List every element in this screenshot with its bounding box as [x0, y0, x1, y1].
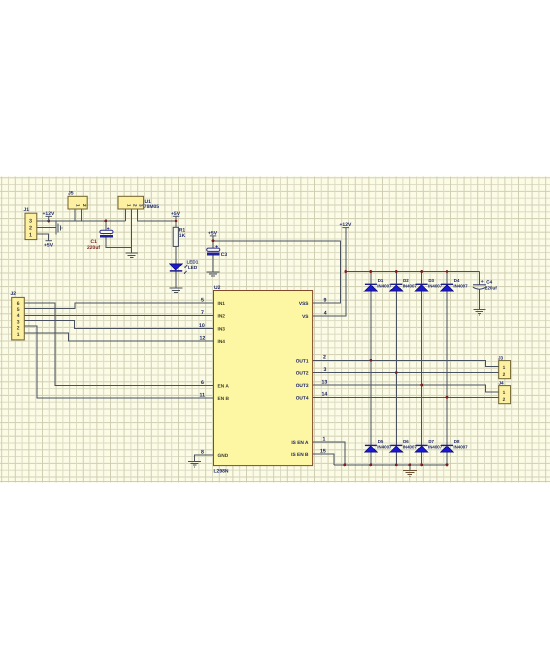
svg-text:D3: D3 [428, 278, 434, 283]
connector J3 [498, 355, 511, 378]
wire: D7 anode to bottom bus [421, 452, 423, 465]
svg-text:8: 8 [201, 449, 204, 455]
svg-text:C3: C3 [221, 252, 228, 258]
svg-text:2: 2 [503, 372, 506, 378]
wire: 78M05 input stub [125, 209, 127, 221]
wire: LED1 cathode to ground [175, 272, 177, 289]
diode D5 IN4007 [365, 439, 392, 452]
svg-text:+5V: +5V [171, 211, 181, 217]
wire: bottom flyback bus [334, 464, 447, 466]
node: bus-D8 [446, 464, 449, 467]
svg-text:15: 15 [320, 448, 326, 454]
svg-text:IN2: IN2 [218, 314, 226, 320]
svg-text:D7: D7 [428, 439, 434, 444]
svg-text:13: 13 [322, 379, 328, 385]
ground (under C3) [207, 272, 220, 276]
wire: +5V port stem to R1 node [175, 216, 177, 221]
svg-text:220uf: 220uf [485, 286, 497, 291]
wire: J2 pin5 jog up to IN1 row [24, 303, 204, 309]
wire: J2 pin6 down to EN A row [24, 303, 204, 386]
ground (bottom bus) [403, 470, 417, 476]
svg-text:OUT2: OUT2 [296, 371, 309, 377]
diode D8 IN4007 [441, 439, 468, 452]
svg-text:L298N: L298N [214, 468, 229, 474]
svg-text:1: 1 [17, 332, 20, 338]
wire: D1 column [370, 272, 372, 446]
svg-text:LED: LED [188, 265, 198, 270]
svg-text:EN B: EN B [218, 396, 230, 402]
ground (under C4) [474, 309, 486, 315]
power port +5V (above R1) [171, 211, 181, 217]
svg-text:3: 3 [139, 204, 144, 207]
wire: J2 pin4 straight to IN2 row [24, 315, 204, 317]
wire: C3 bottom lead to ground [212, 255, 214, 271]
svg-text:VSS: VSS [299, 301, 309, 307]
node: ISENA-bus [344, 464, 347, 467]
svg-text:2: 2 [132, 204, 137, 207]
svg-text:14: 14 [322, 392, 328, 398]
svg-text:U2: U2 [214, 285, 221, 291]
svg-text:6: 6 [17, 301, 20, 307]
svg-text:VS: VS [302, 314, 309, 320]
svg-text:4: 4 [324, 311, 327, 317]
svg-text:IS EN A: IS EN A [291, 440, 309, 446]
svg-text:10: 10 [199, 323, 205, 329]
svg-text:1: 1 [503, 365, 506, 371]
svg-text:D4: D4 [454, 278, 460, 283]
svg-text:2: 2 [82, 204, 87, 207]
schematic grid background band [0, 177, 550, 483]
node: OUT3-D3 [420, 384, 423, 387]
wire: D2 column [395, 272, 397, 446]
wire: C3 top lead [212, 241, 214, 248]
wire: D5 anode to bottom bus [370, 452, 372, 465]
wire: J5 pin2 stub down to rail [80, 209, 82, 221]
resistor R1 1K [173, 227, 185, 246]
node: bus ground tap [409, 464, 412, 467]
svg-text:IN4007: IN4007 [377, 445, 392, 450]
svg-text:D8: D8 [454, 439, 460, 444]
wire: R1 top lead [175, 221, 177, 227]
svg-text:OUT4: OUT4 [296, 395, 309, 401]
svg-text:J4: J4 [499, 380, 505, 385]
connector J2 [11, 291, 25, 340]
ground (J1 pin2, sideways) [56, 222, 62, 235]
capacitor C4 220uf [473, 279, 497, 290]
svg-text:1: 1 [76, 204, 81, 207]
svg-text:IS EN B: IS EN B [291, 452, 309, 458]
voltage regulator U1 78M05 [118, 196, 159, 210]
wire: R1 bottom to LED1 [175, 246, 177, 264]
diode D4 IN4007 [441, 278, 468, 291]
diode D3 IN4007 [415, 278, 442, 291]
svg-text:EN A: EN A [218, 384, 230, 390]
svg-text:IN4007: IN4007 [428, 284, 443, 289]
wire: C4 top lead [478, 272, 480, 285]
svg-text:1: 1 [503, 390, 506, 396]
connector J1 [24, 207, 37, 239]
power port +5V (J1 pin1, downward) [44, 241, 54, 249]
svg-text:+12V: +12V [43, 211, 55, 217]
svg-text:D6: D6 [403, 439, 409, 444]
wire: OUT1 to J3 pin1 [313, 360, 499, 366]
svg-text:5: 5 [17, 307, 20, 313]
svg-text:78M05: 78M05 [144, 204, 160, 210]
node: bus-D2 [395, 270, 398, 273]
wire: J5 pin1 stub down to rail [74, 209, 76, 221]
ground (under 78M05 and C1) [125, 247, 138, 257]
node: C3 tap [212, 240, 215, 243]
svg-text:J3: J3 [498, 355, 504, 360]
wire: C4 bottom lead to ground [478, 289, 480, 309]
LED LED1 [170, 259, 199, 274]
svg-text:4: 4 [17, 313, 20, 319]
power port +12V (left) [43, 211, 55, 221]
node: +12V tap at J1 [47, 220, 50, 223]
svg-text:OUT3: OUT3 [296, 383, 309, 389]
svg-text:OUT1: OUT1 [296, 358, 309, 364]
svg-text:2: 2 [503, 397, 506, 403]
wire: J2 pin2 down to EN B row [24, 326, 204, 398]
svg-text:J2: J2 [11, 291, 17, 297]
diode D1 IN4007 [365, 278, 392, 291]
node: bus-D3 [420, 270, 423, 273]
svg-text:IN4007: IN4007 [377, 284, 392, 289]
svg-text:6: 6 [201, 380, 204, 386]
svg-text:1: 1 [29, 232, 32, 238]
svg-text:5: 5 [201, 297, 204, 303]
svg-text:9: 9 [324, 297, 327, 303]
capacitor C3 [207, 245, 228, 258]
connector J5 [68, 190, 87, 209]
node: bus-D5 [370, 464, 373, 467]
junction dots placeholder group [47, 220, 448, 467]
svg-text:IN4007: IN4007 [453, 284, 468, 289]
wire: OUT2 to J3 pin2 [313, 372, 499, 374]
svg-text:3: 3 [324, 367, 327, 373]
svg-text:2: 2 [323, 355, 326, 361]
wire: +12V stem down to VS pin 4 [313, 228, 346, 317]
svg-text:1: 1 [127, 204, 132, 207]
wire: +5V port stem at C3 node [212, 236, 214, 241]
wire: D6 anode to bottom bus [395, 452, 397, 465]
wire: chip left stubs IN1-IN4 [205, 303, 214, 341]
diode D2 IN4007 [390, 278, 417, 291]
svg-text:1: 1 [323, 436, 326, 442]
svg-text:2: 2 [29, 226, 32, 232]
wire: bottom bus ground stem [409, 465, 411, 470]
svg-text:+12V: +12V [340, 222, 352, 228]
svg-text:12: 12 [200, 335, 206, 341]
svg-text:3: 3 [29, 219, 32, 225]
power port +12V (right) [340, 222, 352, 228]
ground (chip GND pin 8) [188, 461, 201, 467]
svg-text:D5: D5 [378, 439, 384, 444]
node: OUT1-D1 [370, 359, 373, 362]
svg-text:IN4007: IN4007 [403, 284, 418, 289]
node: C1 tap on rail [105, 220, 108, 223]
node: bus-D1 [370, 270, 373, 273]
wire: J1 pin1 down to +5V port [37, 234, 49, 241]
IC U2 L298N dual H-bridge motor driver [199, 285, 327, 474]
svg-text:D1: D1 [378, 278, 384, 283]
svg-text:J5: J5 [68, 190, 74, 196]
node: bus-D7 [420, 464, 423, 467]
wire: 78M05 gnd stub down [131, 209, 133, 247]
svg-text:J1: J1 [24, 207, 30, 213]
svg-text:1K: 1K [179, 233, 186, 239]
wire: J2 pin1 down to IN4 row [24, 333, 204, 341]
svg-text:7: 7 [201, 310, 204, 316]
node: bus-D4 [446, 270, 449, 273]
power port +5V (above C3) [208, 231, 218, 237]
ground (under LED1) [170, 288, 183, 292]
wire: OUT3 to J4 pin1 [313, 385, 499, 392]
node: bus-D6 [395, 464, 398, 467]
svg-text:+5V: +5V [44, 243, 54, 249]
wire: GND pin 8 to ground [195, 455, 214, 461]
svg-text:IN4007: IN4007 [403, 445, 418, 450]
wire: C1 top lead [105, 221, 107, 230]
svg-text:IN4: IN4 [218, 339, 226, 345]
wire: chip left stubs EN A, EN B [205, 386, 214, 399]
node: OUT4-D4 [446, 396, 449, 399]
node: +5V R1 tap [175, 220, 178, 223]
wire: 78M05 output stub down and right to +5V node [138, 209, 176, 221]
wire: OUT4 to J4 pin2 [313, 396, 499, 398]
capacitor C1 220uf [87, 227, 113, 251]
svg-text:C1: C1 [91, 239, 98, 245]
node: OUT2-D2 [395, 371, 398, 374]
wire: D4 column [446, 272, 448, 446]
svg-text:IN4007: IN4007 [453, 445, 468, 450]
svg-text:+5V: +5V [208, 231, 218, 237]
svg-text:220uf: 220uf [87, 245, 100, 251]
svg-text:11: 11 [200, 392, 206, 398]
svg-text:D2: D2 [403, 278, 409, 283]
wire: ISEN A pin1 down to bottom bus [313, 442, 345, 465]
svg-text:IN3: IN3 [218, 327, 226, 333]
diode D7 IN4007 [415, 439, 442, 452]
svg-text:2: 2 [17, 325, 20, 331]
svg-text:GND: GND [218, 453, 229, 459]
wire: top flyback bus to C4 [346, 271, 480, 273]
diode D6 IN4007 [390, 439, 417, 452]
svg-text:IN1: IN1 [218, 301, 226, 307]
wire: C1 bottom lead to ground row [106, 238, 132, 248]
node: +12V bus tap [344, 270, 347, 273]
wire: J1 pin2 to sideways ground [37, 227, 55, 229]
wire: D8 anode to bottom bus [446, 452, 448, 465]
svg-text:C4: C4 [486, 279, 492, 284]
wire: J2 pin3 jog down to IN3 row [24, 320, 204, 328]
wire: ISEN B pin15 down to bottom bus [313, 454, 335, 465]
wire: +12V rail from J1 pin3 to 78M05 input [37, 220, 126, 222]
wire: +5V rail to VSS pin 9 [213, 241, 341, 303]
svg-text:LED1: LED1 [187, 259, 199, 264]
connector J4 [499, 380, 511, 403]
svg-text:IN4007: IN4007 [428, 445, 443, 450]
wire: D3 column [421, 272, 423, 446]
